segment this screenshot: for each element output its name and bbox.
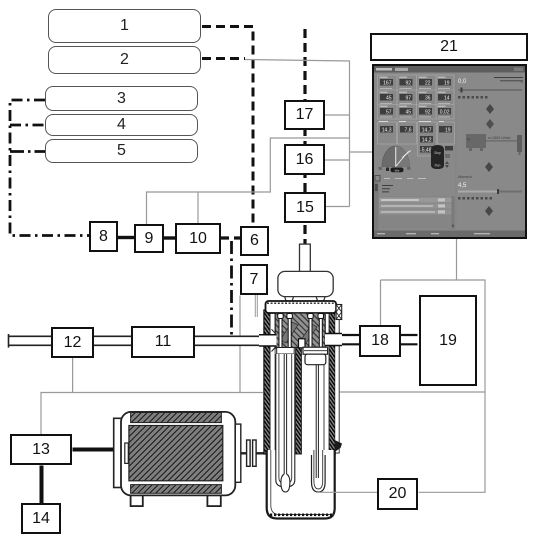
mechanism block — [275, 313, 325, 348]
svg-text:-5,48: -5,48 — [420, 147, 432, 153]
box 13 — [10, 434, 72, 465]
mid wall strip — [296, 348, 302, 455]
svg-text:36: 36 — [425, 95, 431, 101]
svg-text:57: 57 — [386, 109, 392, 115]
shaft left — [9, 334, 264, 348]
box 8 — [89, 221, 118, 252]
box 21 label — [370, 33, 528, 61]
right mini panel — [445, 146, 453, 168]
outer wall left liner — [270, 312, 275, 454]
wire dashdot trunk left — [10, 100, 89, 236]
box 4 — [45, 114, 198, 136]
center rod — [284, 354, 286, 474]
piston rod — [316, 365, 318, 478]
svg-text:14,3: 14,3 — [382, 127, 392, 133]
wire gray from screenshot bottom — [381, 239, 486, 492]
wire gray bus from box2 to right vertical — [245, 60, 350, 207]
right cylinder band — [303, 347, 328, 354]
svg-text:%: % — [520, 80, 523, 84]
wire gray 17 to bus — [325, 114, 350, 116]
svg-text:M: M — [467, 138, 470, 142]
beaker — [267, 450, 335, 519]
wire gray 15 to bus — [326, 206, 350, 208]
right panel content — [458, 78, 523, 217]
svg-text:Idle: Idle — [395, 168, 400, 172]
wire dashed 10 to 6 — [221, 236, 240, 239]
gauge semicircle — [379, 146, 411, 172]
shaft bearing block at apparatus — [270, 332, 278, 348]
cap — [278, 271, 333, 296]
svg-text:Stop: Stop — [434, 151, 441, 155]
box 3 — [45, 86, 198, 111]
wire gray down to box10 — [197, 192, 199, 223]
right U tube — [312, 455, 326, 492]
beaker bottom stipple — [270, 513, 332, 516]
box 20 — [377, 478, 418, 510]
wire gray net1 horizontal right — [340, 391, 485, 393]
status bar — [374, 231, 525, 238]
wire gray net1 from box12 — [72, 358, 74, 393]
window title bar — [374, 66, 525, 73]
box 10 — [175, 223, 221, 254]
motor M — [114, 412, 264, 506]
box 9 — [134, 224, 164, 253]
wire dashdot to box4 — [10, 124, 45, 127]
left piston band — [277, 348, 295, 355]
svg-text:14,7: 14,7 — [422, 127, 432, 133]
right U tube inner wall — [314, 450, 323, 489]
wire dashed from box1 to vertical — [202, 27, 253, 227]
box 17 — [284, 100, 325, 130]
svg-text:167: 167 — [383, 80, 392, 86]
central guide block — [299, 339, 306, 348]
info lines — [382, 186, 393, 192]
box 19 — [419, 295, 477, 386]
svg-text:Moment: Moment — [458, 175, 473, 179]
left icon column — [374, 182, 379, 231]
apparatus stirling engine — [259, 244, 342, 518]
svg-text:4,5: 4,5 — [458, 183, 467, 189]
outer wall right liner — [324, 312, 329, 454]
top plate stipple — [267, 302, 335, 304]
box 1 — [48, 9, 201, 43]
left U tube inner wall — [279, 354, 292, 484]
box 5 — [45, 139, 198, 163]
dyno graphic — [466, 134, 486, 151]
right piston block — [305, 354, 326, 365]
box 6 — [240, 226, 269, 256]
svg-text:97: 97 — [405, 95, 411, 101]
box 2 — [48, 46, 201, 74]
wire dashed from box2 — [202, 57, 245, 60]
box 15 — [284, 192, 326, 223]
wire dashdot to box5 — [10, 150, 45, 153]
right wall tap — [335, 440, 343, 452]
svg-text:45: 45 — [405, 109, 411, 115]
tile grid frame — [378, 75, 455, 119]
right top bearing — [336, 305, 342, 320]
box 16 — [284, 144, 325, 175]
screenshot 21 software window — [372, 64, 527, 239]
box 12 — [51, 327, 94, 358]
svg-text:0,02: 0,02 — [440, 109, 450, 115]
wire gray bus into screenshot — [350, 151, 374, 153]
wire thick 13 to motor — [73, 448, 116, 452]
box 14 — [21, 503, 61, 534]
wire dashdot vertical to shaft — [230, 241, 233, 343]
svg-text:0,0: 0,0 — [458, 79, 467, 85]
beaker inner line — [271, 450, 334, 515]
svg-text:14,2: 14,2 — [422, 137, 432, 143]
top plate — [266, 301, 337, 313]
cap feet — [285, 297, 326, 302]
right shaft channel — [325, 334, 342, 346]
wire gray from box7 down — [239, 296, 241, 393]
box 7 — [240, 264, 268, 295]
svg-text:n=1500 U/min: n=1500 U/min — [488, 136, 510, 140]
wire gray horizontal above 9 10 — [147, 138, 350, 224]
wire thick 9 to 10 — [164, 236, 175, 239]
wire thick 8 to 9 — [118, 236, 134, 239]
svg-text:19: 19 — [444, 80, 450, 86]
svg-text:7,6: 7,6 — [405, 127, 412, 133]
second group row — [378, 122, 455, 157]
wire gray pair from box7 — [255, 295, 257, 317]
lever blob — [431, 145, 444, 169]
svg-text:45: 45 — [386, 95, 392, 101]
rod feet — [277, 351, 325, 353]
svg-text:22: 22 — [425, 80, 431, 86]
svg-text:19: 19 — [445, 127, 451, 133]
main background — [374, 73, 525, 231]
svg-text:14: 14 — [444, 95, 450, 101]
outer wall right — [329, 310, 335, 454]
wire dashed vertical through 17 16 15 — [303, 29, 306, 250]
wire gray 16 to bus — [325, 159, 350, 161]
outer right thin shell — [335, 312, 339, 453]
left U tube — [276, 354, 295, 487]
box 11 — [131, 326, 195, 358]
thermometer bulb — [281, 474, 290, 492]
log panel — [379, 196, 455, 229]
tiles 4x3 — [378, 73, 456, 230]
tab bar — [375, 175, 427, 182]
svg-text:92: 92 — [425, 109, 431, 115]
wire gray beaker to box20 over beaker — [316, 491, 378, 493]
svg-text:Run: Run — [435, 164, 441, 168]
svg-text:92: 92 — [405, 80, 411, 86]
wire thick 13 to 14 — [40, 466, 44, 504]
shaft right to box18 — [341, 335, 418, 344]
wire gray net1 horizontal left — [41, 393, 263, 435]
left shaft channel — [259, 329, 277, 351]
crank shapes inside mechanism — [280, 322, 317, 346]
outer wall left — [264, 310, 270, 454]
stem — [300, 244, 311, 272]
valve rods with caps — [278, 314, 324, 353]
box 18 — [359, 325, 401, 357]
